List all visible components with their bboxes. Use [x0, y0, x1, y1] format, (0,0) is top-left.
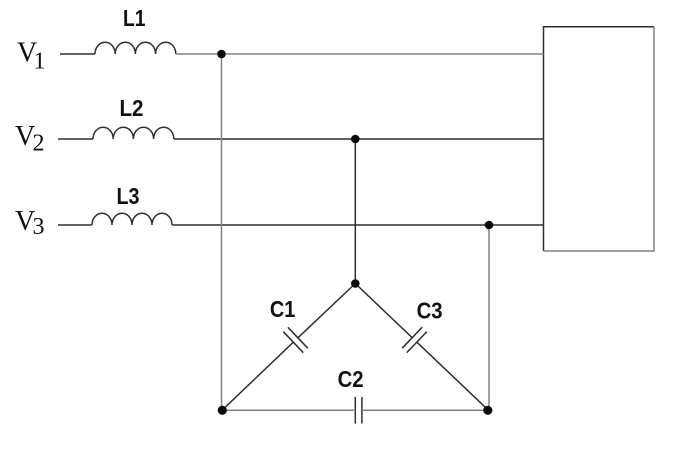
- svg-text:1: 1: [34, 49, 46, 75]
- svg-text:L1: L1: [123, 5, 146, 31]
- svg-text:C3: C3: [417, 297, 443, 323]
- svg-text:L2: L2: [120, 95, 144, 121]
- svg-text:3: 3: [33, 214, 45, 240]
- svg-text:C2: C2: [338, 366, 364, 392]
- svg-text:C1: C1: [270, 296, 296, 322]
- svg-text:L3: L3: [117, 183, 140, 209]
- svg-text:2: 2: [33, 131, 45, 157]
